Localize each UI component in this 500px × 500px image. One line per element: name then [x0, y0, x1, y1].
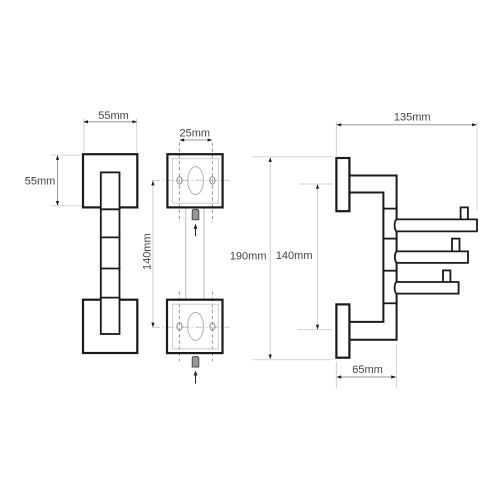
dimension line 135mm — [337, 124, 476, 126]
bottom plate fill — [167, 300, 223, 353]
hook 2 nub — [452, 239, 460, 253]
bar division 3 — [100, 268, 121, 270]
bar division 4 — [100, 297, 121, 299]
dimension line 190mm — [269, 158, 271, 359]
arrow bottom of 55mm left — [56, 201, 59, 206]
bottom plate inner rect — [173, 304, 219, 349]
svg-text:190mm: 190mm — [230, 251, 267, 263]
dimension line 65mm — [337, 376, 395, 378]
top plate outline — [167, 154, 222, 207]
dimension line 55mm left — [57, 156, 59, 205]
top plate inner rect — [173, 159, 219, 203]
svg-text:25mm: 25mm — [180, 128, 211, 140]
centerline bottom plate — [152, 326, 230, 328]
bottom plate hole right — [210, 323, 215, 330]
extension line: 190mm bottom — [253, 359, 333, 361]
post division 4 — [383, 302, 396, 304]
screw pin bottom — [192, 357, 199, 368]
bottom plate center ellipse — [188, 312, 204, 340]
arrow bottom of 140mm middle — [151, 323, 154, 328]
extension line: 140mm right bottom — [298, 329, 333, 331]
bottom plate hole left — [177, 323, 182, 330]
post division 3 — [383, 270, 396, 272]
top plate center ellipse — [188, 167, 204, 195]
post division 2 — [383, 238, 396, 240]
dimension line 140mm right — [317, 185, 319, 329]
hook 3 bar — [395, 282, 459, 294]
arrow right of 55mm top — [132, 120, 137, 123]
bar division 2 — [100, 236, 121, 238]
extension line: 190mm top — [253, 156, 333, 158]
hook 3 nub — [443, 270, 450, 283]
centerline top plate — [152, 179, 230, 181]
bottom square plate (front view) — [83, 300, 137, 353]
top plate hole right — [210, 177, 215, 184]
arrow top of 55mm left — [56, 155, 59, 160]
extension line: left 55mm lower — [51, 205, 81, 207]
insertion arrow top — [195, 228, 197, 236]
rod silhouette left edge — [185, 207, 187, 299]
bottom plate outline — [167, 300, 223, 353]
extension line: 135mm left — [335, 122, 337, 156]
arrow left of 55mm top — [83, 120, 88, 123]
bracket body (arms + post, side view) — [349, 176, 396, 340]
insertion arrow bottom — [195, 375, 197, 384]
arrow right of 25mm — [208, 138, 213, 141]
top plate fill — [167, 154, 222, 207]
svg-text:55mm: 55mm — [25, 176, 56, 188]
top plate hole left — [177, 177, 182, 184]
top square plate (front view) — [83, 154, 137, 207]
extension line: 65mm right — [395, 344, 397, 389]
svg-text:135mm: 135mm — [394, 112, 431, 124]
hook 1 bar — [395, 219, 477, 231]
extension line: left 55mm upper — [51, 154, 81, 156]
arrow left of 25mm — [179, 138, 184, 141]
extension line: top 55mm right — [136, 118, 138, 153]
screw-hole dashed line right — [211, 143, 213, 223]
screw pin top — [192, 209, 199, 219]
svg-text:140mm: 140mm — [276, 250, 313, 262]
extension line: 135mm right — [476, 122, 478, 211]
vertical bar (front view) — [101, 172, 120, 334]
hook 2 bar — [395, 251, 468, 263]
wall plate top (side view) — [336, 158, 349, 211]
dimension line 25mm — [180, 139, 211, 141]
hook 1 nub — [461, 207, 468, 220]
extension line: 65mm left — [335, 362, 337, 389]
dimension line 55mm top — [84, 121, 136, 123]
arrow top of 140mm middle — [151, 181, 154, 186]
svg-text:65mm: 65mm — [352, 364, 383, 376]
screw-hole dashed line left — [178, 143, 180, 223]
svg-text:55mm: 55mm — [98, 110, 129, 122]
dimension line 140mm middle — [152, 182, 154, 327]
post division 1 — [383, 208, 396, 210]
wall plate bottom (side view) — [336, 304, 349, 357]
extension line: 140mm right top — [300, 183, 333, 185]
rod silhouette right edge — [203, 207, 205, 299]
svg-text:140mm: 140mm — [142, 233, 154, 270]
extension line: top 55mm left — [83, 118, 85, 153]
bar division 1 — [100, 208, 121, 210]
